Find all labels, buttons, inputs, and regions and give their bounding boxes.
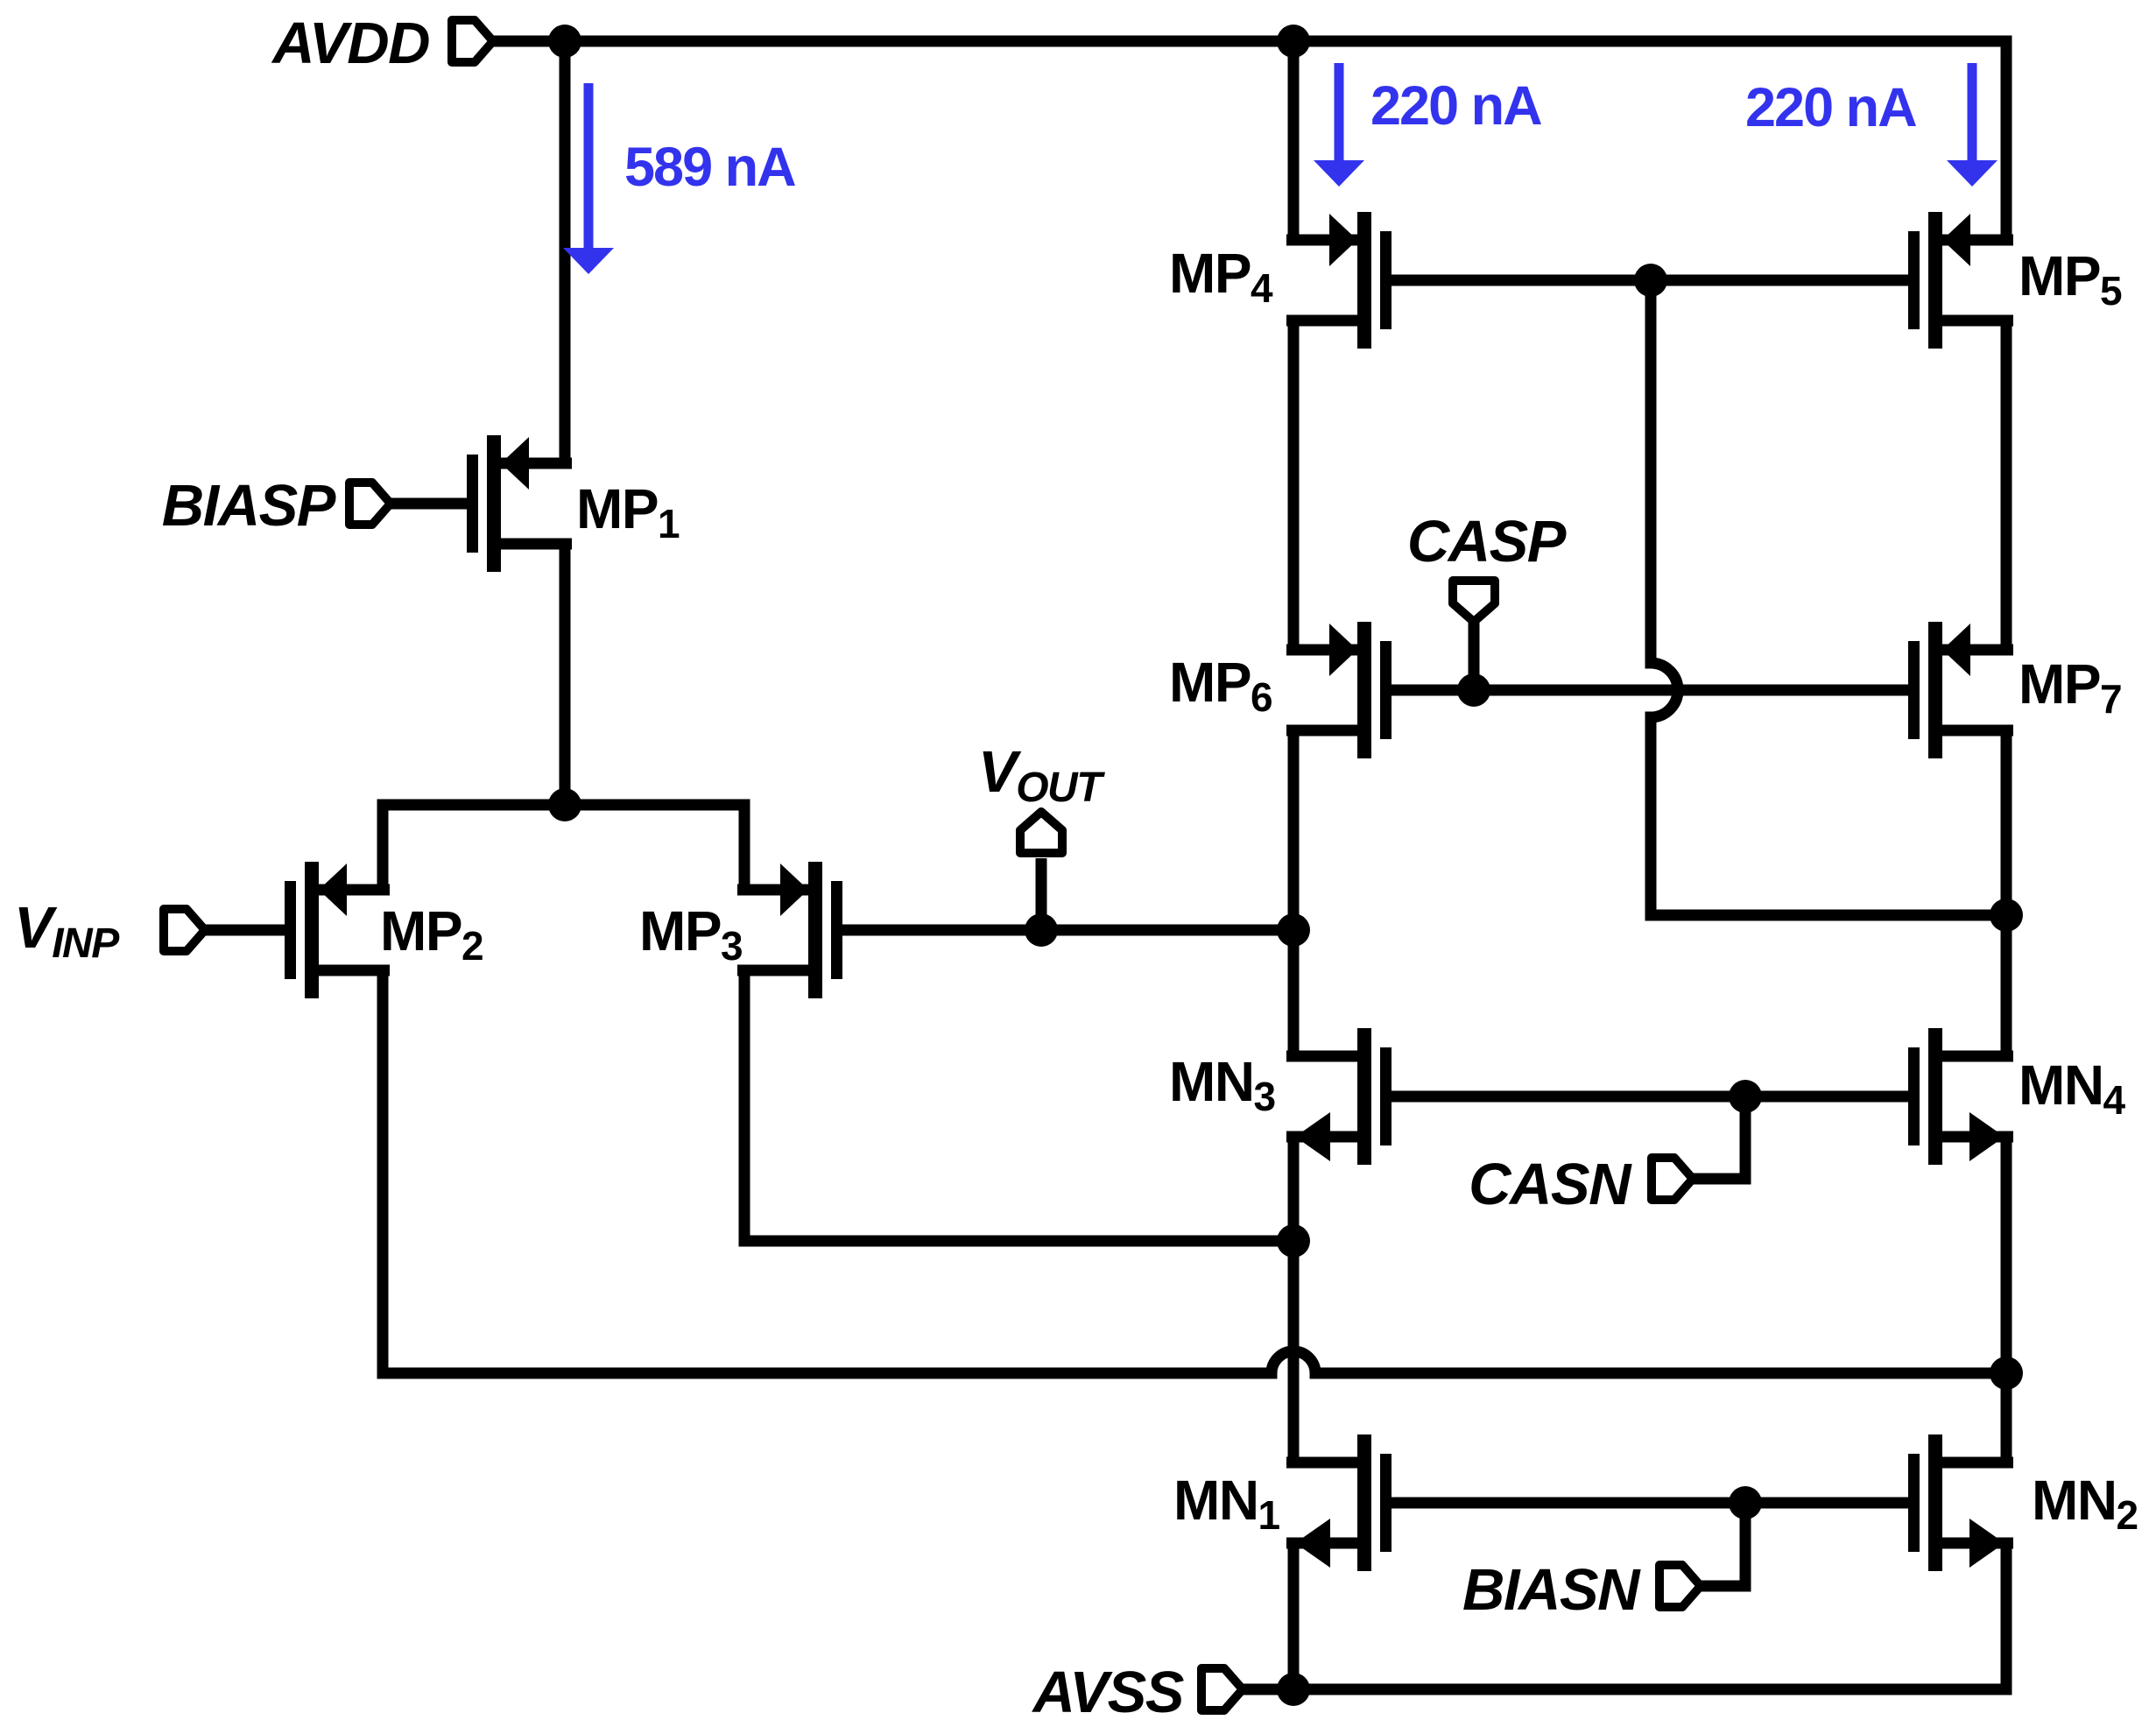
svg-text:589 nA: 589 nA — [624, 137, 795, 198]
svg-text:CASN: CASN — [1469, 1152, 1632, 1217]
svg-text:CASP: CASP — [1407, 509, 1567, 574]
svg-text:BIASP: BIASP — [162, 473, 336, 539]
svg-text:220 nA: 220 nA — [1370, 75, 1541, 137]
svg-text:220 nA: 220 nA — [1745, 77, 1916, 138]
svg-text:BIASN: BIASN — [1462, 1557, 1641, 1623]
svg-text:AVDD: AVDD — [271, 11, 429, 76]
svg-text:AVSS: AVSS — [1032, 1660, 1184, 1725]
